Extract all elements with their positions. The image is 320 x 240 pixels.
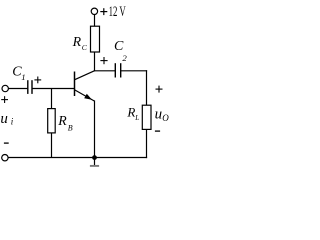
resistor RB [48,109,56,133]
terminal input top (open circle) [2,85,8,91]
svg-text:R: R [126,105,135,120]
svg-text:u: u [0,111,8,127]
wire: emitter down to ground junction [94,100,96,157]
svg-text:L: L [134,114,139,122]
transistor Q1 collector lead [75,71,95,80]
label ui [0,111,13,127]
svg-text:R: R [72,34,82,49]
capacitor C1 [28,80,32,94]
plus sign (input polarity) [1,96,8,103]
svg-text:12 V: 12 V [109,3,127,20]
transistor Q1 emitter lead [75,90,95,101]
wire: C1 right plate to transistor base [32,88,74,90]
resistor RC [91,26,100,52]
wire: base rail branch down to RB [51,89,53,109]
wire: C2 right plate to top-right corner [121,70,147,72]
label RC [72,34,88,52]
minus sign (input polarity) [4,142,9,144]
wire: bottom rail [8,157,147,159]
wire: RB bottom to bottom rail [51,133,53,158]
wire: RC bottom to collector node [94,52,96,71]
capacitor C2 [115,63,120,77]
label RL [126,105,139,122]
label C2 [114,39,127,63]
label uO [155,106,170,123]
wire: top-right corner down to RL top [146,70,148,105]
svg-text:C: C [114,39,124,54]
svg-text:R: R [57,113,67,128]
resistor RL [142,105,151,129]
svg-text:O: O [162,113,169,123]
plus sign (output polarity) [156,86,163,93]
plus sign (C1 right polarity) [34,77,41,84]
wire: RL bottom to bottom rail [146,129,148,158]
svg-text:2: 2 [122,53,127,63]
transistor Q1 base bar [74,72,76,97]
label RB [57,113,73,132]
transistor Q1 emitter arrow [84,94,92,100]
svg-text:u: u [155,106,163,122]
ground symbol [90,158,99,166]
plus sign (C2 left polarity) [100,57,107,64]
wire: collector node to C2 left plate [94,70,115,72]
label +12 V [100,3,126,20]
svg-text:1: 1 [21,72,25,82]
minus sign (output polarity) [155,130,160,132]
terminal +12V (open circle) [91,8,97,14]
svg-text:B: B [68,124,73,133]
terminal input bottom (open circle) [2,155,8,161]
wire: +12V terminal to RC top [94,15,96,27]
junction dot (emitter / bottom rail / ground) [92,155,97,160]
wire: input terminal to C1 left plate [8,88,27,90]
label C1 [12,64,25,82]
